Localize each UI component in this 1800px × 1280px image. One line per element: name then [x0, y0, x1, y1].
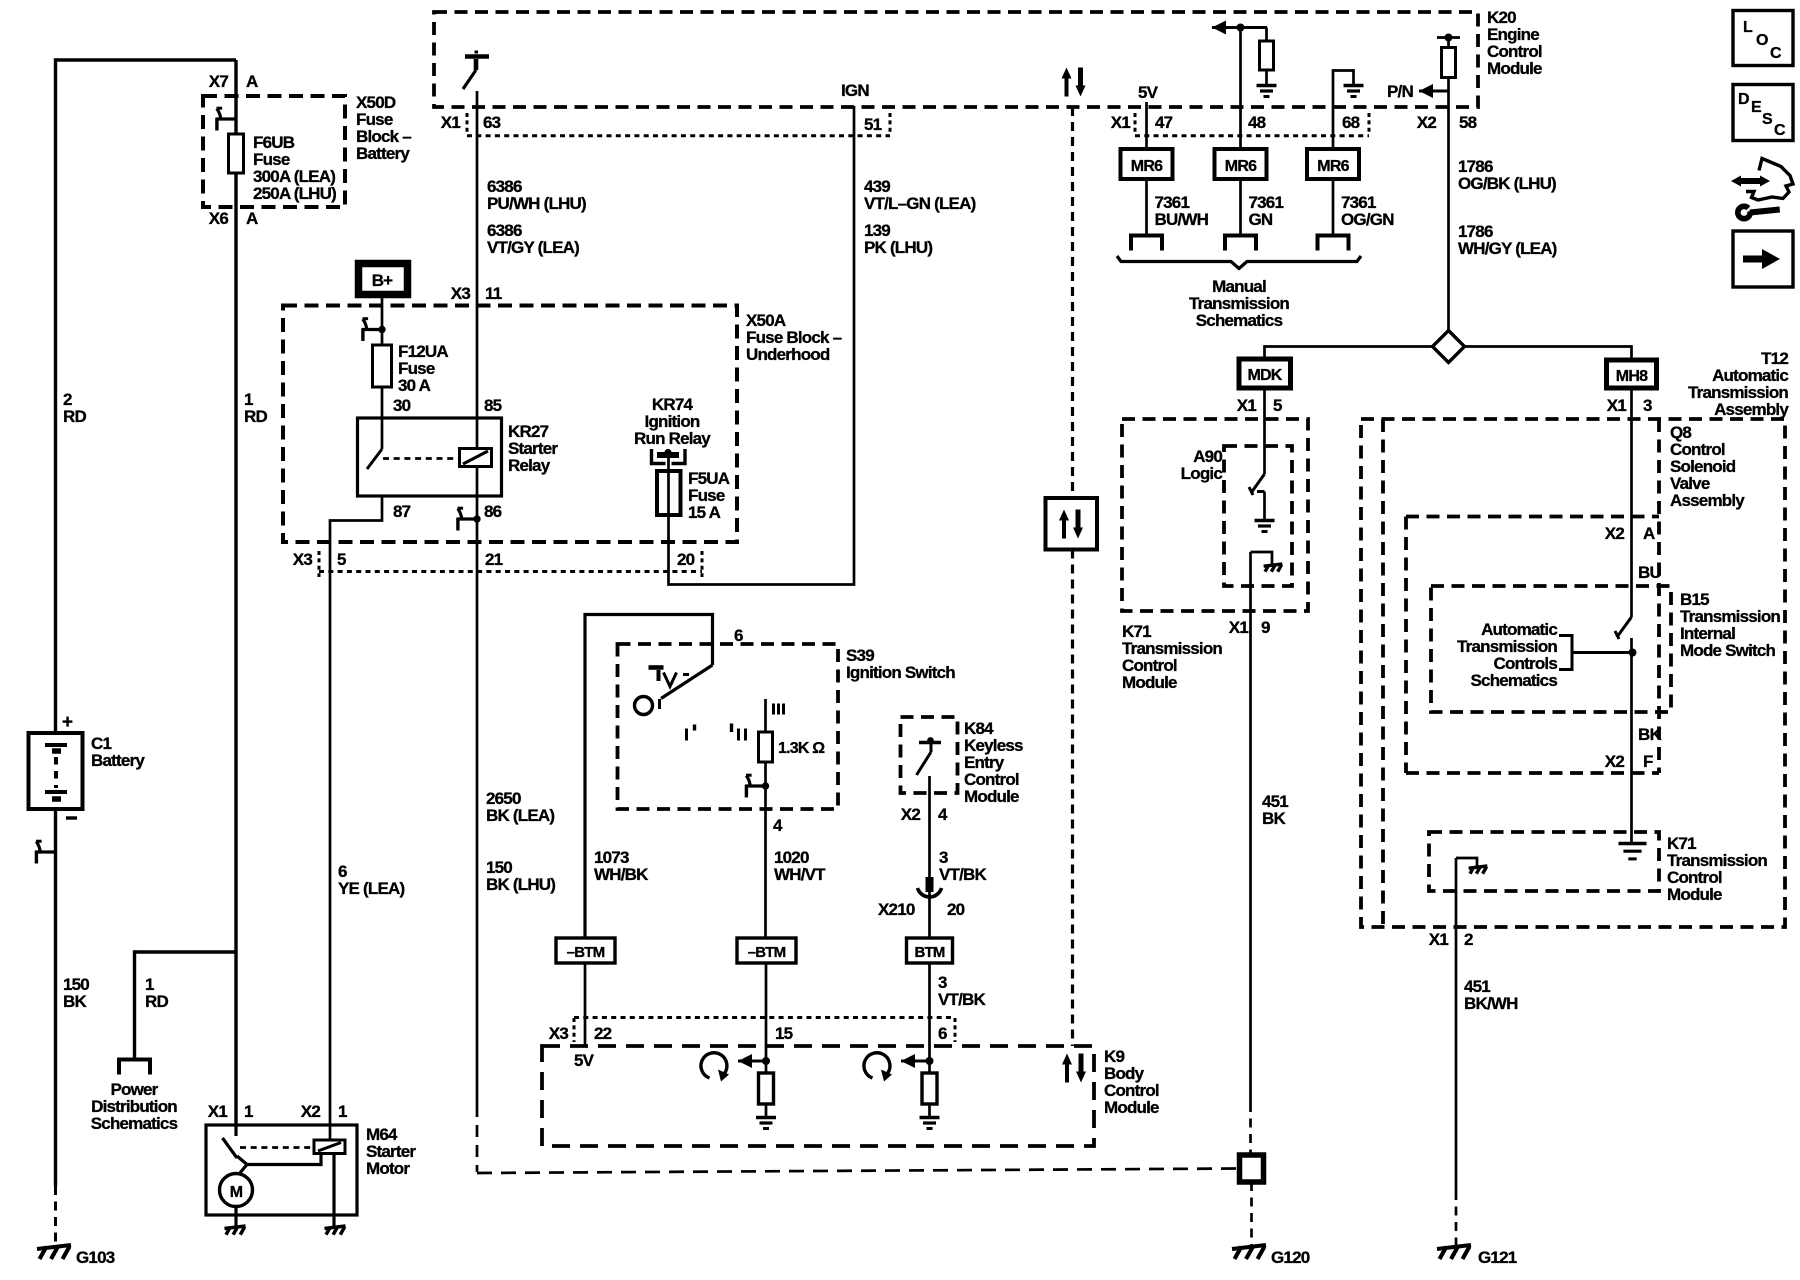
wire 1786 OG/BK [1447, 107, 1450, 331]
wire K84 output [928, 776, 931, 938]
K84 switch lever [917, 752, 932, 775]
connector X210 [926, 877, 934, 892]
icon DESC box [1733, 85, 1793, 141]
svg-text:OG/GN: OG/GN [1341, 210, 1394, 229]
svg-text:X1: X1 [1237, 396, 1257, 415]
svg-text:Assembly: Assembly [1714, 400, 1789, 419]
chassis ground under motor [224, 1226, 245, 1228]
svg-text:BK (LEA): BK (LEA) [486, 806, 554, 825]
svg-text:BK: BK [1638, 725, 1662, 744]
K71 chassis ground tap [1456, 858, 1477, 866]
svg-text:20: 20 [947, 900, 965, 919]
icon vehicle with arrow and wrench [1746, 159, 1793, 201]
keyless entry control module K84 box [901, 717, 958, 793]
BCM X3 dotted ticks [573, 1018, 576, 1042]
wire F12UA to relay pin 30 [381, 387, 384, 418]
svg-text:BU: BU [1638, 563, 1661, 582]
svg-text:MR6: MR6 [1317, 158, 1349, 175]
fuse block X50D box [203, 96, 345, 207]
bracket automatic transmission controls [1559, 636, 1572, 670]
svg-text:Module: Module [1104, 1098, 1159, 1117]
svg-text:G103: G103 [76, 1248, 115, 1267]
icon LOC box [1733, 11, 1793, 66]
wire 5V to MR6 [1145, 102, 1148, 149]
svg-text:30 A: 30 A [398, 376, 431, 395]
svg-text:Module: Module [1487, 59, 1542, 78]
svg-text:X2: X2 [1417, 113, 1437, 132]
wire relay coil to pin 86 [476, 467, 479, 497]
svg-text:X2: X2 [301, 1102, 321, 1121]
svg-text:RD: RD [244, 407, 267, 426]
svg-text:IGN: IGN [841, 81, 869, 100]
splice on battery ground wire [35, 850, 56, 853]
ECM internal ground (48) [1257, 84, 1277, 87]
svg-text:PU/WH (LHU): PU/WH (LHU) [487, 194, 586, 213]
svg-text:30: 30 [393, 396, 411, 415]
ECM run-crank output arrow [1212, 26, 1224, 29]
fuse block X50A box [283, 306, 737, 543]
starter motor M [220, 1174, 253, 1207]
svg-text:68: 68 [1342, 113, 1360, 132]
wire 451 BK/WH [1455, 858, 1458, 1191]
svg-text:BTM: BTM [914, 944, 944, 961]
svg-text:1.3K Ω: 1.3K Ω [778, 740, 825, 757]
svg-text:D: D [1738, 91, 1749, 108]
svg-text:BK: BK [1262, 809, 1286, 828]
svg-text:Logic: Logic [1181, 464, 1223, 483]
wire through fuse F5UA [667, 471, 670, 515]
splice box G120 [1240, 1155, 1264, 1182]
splice below S39 resistor [745, 784, 766, 787]
svg-text:X2: X2 [1605, 524, 1625, 543]
BCM loop arrow (6) [864, 1053, 890, 1078]
S39 detent contact [649, 665, 664, 670]
transmission internal mode switch B15 box [1431, 586, 1671, 712]
svg-text:9: 9 [1261, 618, 1270, 637]
off-page connector under MR6 #3 [1318, 236, 1349, 251]
B15 ground [1619, 842, 1647, 845]
fuse F6UB [229, 134, 244, 173]
svg-text:RD: RD [63, 407, 86, 426]
serial data dashed line upper [1071, 107, 1074, 498]
svg-text:YE (LEA): YE (LEA) [338, 879, 404, 898]
ground G103 [37, 1245, 71, 1249]
BCM serial data arrows [1065, 1061, 1069, 1083]
svg-text:WH/GY (LEA): WH/GY (LEA) [1458, 239, 1557, 258]
transmission control module K71 box [1122, 419, 1308, 611]
svg-text:87: 87 [393, 502, 411, 521]
wire 451 BK [1249, 552, 1252, 1103]
svg-text:BK/WH: BK/WH [1464, 994, 1518, 1013]
wire B+ to fuse F12UA [381, 295, 384, 345]
svg-text:X1: X1 [1229, 618, 1249, 637]
svg-text:6: 6 [938, 1024, 947, 1043]
svg-text:VT/GY (LEA): VT/GY (LEA) [487, 238, 579, 257]
svg-text:Battery: Battery [356, 144, 410, 163]
starter solenoid contact box [314, 1140, 345, 1154]
svg-text:85: 85 [484, 396, 502, 415]
svg-text:Schematics: Schematics [91, 1114, 178, 1133]
icon forward arrow box [1733, 231, 1793, 287]
wire pin 86 down (2650 BK) [476, 496, 479, 1105]
B+ power node [359, 264, 408, 295]
svg-text:3: 3 [1643, 396, 1652, 415]
wire 7361 OG/GN [1332, 179, 1335, 234]
BCM internal ground (6) [920, 1116, 940, 1119]
battery C1 minus terminal [66, 816, 77, 819]
svg-text:X1: X1 [208, 1102, 228, 1121]
svg-text:5: 5 [1273, 396, 1282, 415]
svg-text:Mode Switch: Mode Switch [1680, 641, 1776, 660]
svg-text:A: A [1643, 524, 1655, 543]
BCM arrow pin 15 [738, 1060, 750, 1063]
in-line connector MR6 #3 [1307, 149, 1359, 179]
svg-text:Motor: Motor [366, 1159, 410, 1178]
BCM X3 dotted line [574, 1016, 955, 1019]
relay KR27 switch lever [381, 418, 384, 449]
wire BTM to BCM pin 6 [928, 963, 931, 1061]
splice diamond junction [1433, 331, 1465, 363]
svg-text:X1: X1 [1429, 930, 1449, 949]
wire 451 BK dashed to G120 [1249, 1103, 1252, 1155]
ECM X1 connector dotted line [467, 134, 890, 137]
battery C1 [29, 733, 83, 809]
svg-text:E: E [1751, 99, 1762, 116]
serial data dashed line lower [1071, 550, 1074, 1047]
svg-text:P/N: P/N [1387, 82, 1413, 101]
svg-text:Schematics: Schematics [1471, 671, 1558, 690]
in-line connector -BTM (22) [556, 938, 615, 963]
S39 position mark III [772, 704, 775, 715]
svg-text:C: C [1770, 45, 1782, 62]
S39 position mark II [730, 724, 733, 733]
starter relay KR27 box [358, 418, 502, 496]
svg-text:X3: X3 [451, 284, 471, 303]
BCM loop arrow (15) [701, 1053, 727, 1078]
svg-text:21: 21 [485, 550, 503, 569]
splice above fuse F12UA [362, 328, 383, 331]
fuse F5UA [657, 471, 681, 515]
svg-text:15 A: 15 A [688, 503, 721, 522]
wire F5UA to ECM IGN pin 51 [669, 106, 855, 585]
svg-text:VT/BK: VT/BK [939, 865, 988, 884]
svg-text:X1: X1 [441, 113, 461, 132]
in-line connector BTM (6) [907, 938, 953, 963]
svg-text:X3: X3 [293, 550, 313, 569]
X2 connector box bottom border [1406, 771, 1659, 775]
serial data gateway box [1046, 498, 1098, 550]
ground G120 [1232, 1245, 1266, 1249]
wire 150 BK dashed to G103 [54, 1186, 57, 1246]
svg-text:4: 4 [938, 805, 948, 824]
svg-text:MR6: MR6 [1131, 158, 1163, 175]
relay KR27 coil box [460, 449, 492, 467]
svg-text:S: S [1762, 111, 1773, 128]
svg-text:B+: B+ [372, 271, 393, 290]
A90 chassis ground tap [1251, 552, 1273, 564]
transmission control module K71 (right) box [1429, 832, 1659, 891]
splice below relay pin 86 [457, 517, 478, 520]
svg-text:X210: X210 [878, 900, 915, 919]
svg-text:Module: Module [1122, 673, 1177, 692]
svg-text:X3: X3 [549, 1024, 569, 1043]
wire lever to motor [237, 1154, 321, 1165]
svg-text:VT/L–GN (LEA): VT/L–GN (LEA) [864, 194, 976, 213]
wire diamond to MH8 [1465, 347, 1632, 361]
starter motor M64 box [206, 1125, 357, 1215]
svg-text:58: 58 [1459, 113, 1477, 132]
wire 1 RD branch to power distribution [135, 950, 237, 953]
wire MDK to A90 switch [1263, 388, 1266, 474]
Q8 bottom border [1406, 515, 1659, 519]
wire dashed below G120 box [1250, 1182, 1253, 1246]
svg-text:Battery: Battery [91, 751, 145, 770]
BCM internal ground (15) [756, 1116, 776, 1119]
svg-text:MR6: MR6 [1225, 158, 1257, 175]
ECM internal resistor (58) [1437, 36, 1460, 39]
svg-text:A: A [246, 72, 258, 91]
svg-text:48: 48 [1248, 113, 1266, 132]
svg-text:X6: X6 [209, 209, 229, 228]
svg-text:X2: X2 [901, 805, 921, 824]
svg-text:X1: X1 [1607, 396, 1627, 415]
in-line connector -BTM (15) [737, 938, 796, 963]
wire diamond to MDK [1265, 347, 1433, 360]
ECM X1 right dotted line [1135, 134, 1369, 137]
svg-text:1: 1 [338, 1102, 347, 1121]
svg-text:F: F [1643, 752, 1653, 771]
wire KR74 to fuse F5UA [667, 455, 670, 471]
svg-text:BK (LHU): BK (LHU) [486, 875, 555, 894]
ignition switch S39 box [618, 644, 839, 809]
relay KR74 contact [652, 449, 666, 464]
in-line connector MR6 #2 [1215, 149, 1267, 179]
brace manual transmission schematics [1117, 256, 1361, 269]
off-page connector under MR6 #2 [1225, 236, 1256, 251]
wire pin 87 to X3-5 [330, 496, 382, 1140]
wire solenoid to ground [332, 1154, 335, 1227]
wire relay 85 to coil [476, 418, 479, 449]
svg-text:Underhood: Underhood [746, 345, 830, 364]
svg-text:Run Relay: Run Relay [634, 429, 711, 448]
engine control module K20 box [434, 12, 1478, 107]
starter relay actuation dashed line [240, 1146, 314, 1149]
ground G121 [1437, 1245, 1471, 1249]
svg-text:G121: G121 [1478, 1248, 1517, 1267]
svg-text:Schematics: Schematics [1196, 311, 1283, 330]
relay KR27 actuation dashed line [383, 457, 458, 460]
logic block A90 box [1224, 446, 1292, 586]
A90 switch lever [1251, 474, 1265, 493]
svg-text:MDK: MDK [1247, 367, 1282, 384]
wire 7361 BU/WH [1145, 179, 1148, 234]
svg-text:86: 86 [484, 502, 502, 521]
wire 150 BK battery ground [54, 809, 57, 1186]
svg-text:22: 22 [594, 1024, 612, 1043]
svg-text:5: 5 [337, 550, 346, 569]
svg-text:BU/WH: BU/WH [1155, 210, 1209, 229]
svg-text:+: + [62, 712, 73, 733]
ECM internal ground (68) [1333, 71, 1354, 150]
svg-text:WH/BK: WH/BK [594, 865, 649, 884]
svg-text:Module: Module [964, 787, 1019, 806]
wire 451 BK/WH dashed to G121 [1455, 1191, 1458, 1246]
off-page connector to power distribution schematics [119, 1060, 150, 1075]
svg-text:4: 4 [773, 816, 783, 835]
X2 connector box left border [1404, 517, 1408, 774]
svg-text:63: 63 [483, 113, 501, 132]
svg-text:PK (LHU): PK (LHU) [864, 238, 932, 257]
splice above fuse F6UB [216, 117, 237, 120]
BCM arrow pin 6 [901, 1060, 913, 1063]
wire motor to ground [234, 1207, 237, 1227]
svg-text:11: 11 [485, 284, 502, 303]
svg-text:2: 2 [1464, 930, 1473, 949]
automatic transmission assembly T12 box [1361, 419, 1785, 927]
B15 switch output junction [1630, 638, 1633, 843]
BCM pulldown resistor (6) [928, 1061, 931, 1073]
svg-text:L: L [1743, 19, 1753, 36]
svg-text:250A (LHU): 250A (LHU) [253, 184, 336, 203]
svg-text:Assembly: Assembly [1670, 491, 1745, 510]
svg-text:5V: 5V [574, 1051, 595, 1070]
svg-text:51: 51 [864, 115, 882, 134]
svg-text:WH/VT: WH/VT [774, 865, 826, 884]
svg-text:M: M [230, 1184, 243, 1201]
wire -BTM to BCM pin 15 [765, 963, 768, 1061]
BCM pulldown resistor (15) [765, 1061, 768, 1073]
off-page connector under MR6 #1 [1131, 236, 1162, 251]
wire MH8 to mode switch [1630, 388, 1633, 617]
Q8 assembly inner border [1381, 419, 1385, 927]
svg-text:C: C [1774, 122, 1786, 139]
svg-text:BK: BK [63, 992, 87, 1011]
starter solenoid switch lever [234, 1125, 237, 1136]
wire 2 RD battery feed horizontal [56, 58, 237, 61]
ECM ignition switch contact [465, 54, 489, 59]
svg-text:20: 20 [677, 550, 695, 569]
svg-text:47: 47 [1155, 113, 1173, 132]
in-line connector MDK [1239, 359, 1291, 388]
wire 2 RD battery feed vertical [54, 58, 57, 733]
wire X7 to fuse F6UB [234, 60, 237, 134]
fuse F12UA [373, 345, 392, 387]
in-line connector MR6 #1 [1121, 149, 1173, 179]
body control module K9 box [542, 1046, 1094, 1146]
S39 switch pivot [635, 697, 653, 715]
ECM internal resistor (48) [1265, 28, 1268, 42]
fuse block X3 dotted line [319, 570, 702, 573]
svg-text:X1: X1 [1111, 113, 1131, 132]
svg-text:MH8: MH8 [1616, 368, 1648, 385]
wire -BTM to BCM pin 22 [584, 963, 587, 1046]
svg-text:A: A [246, 209, 258, 228]
serial data up-down arrows (ECM) [1065, 75, 1069, 97]
svg-text:5V: 5V [1138, 83, 1159, 102]
A90 switch ground contact [1257, 490, 1265, 493]
svg-text:15: 15 [775, 1024, 793, 1043]
svg-text:VT/BK: VT/BK [938, 990, 987, 1009]
chassis ground under solenoid [324, 1226, 345, 1228]
svg-text:Module: Module [1667, 885, 1722, 904]
svg-text:GN: GN [1249, 210, 1273, 229]
svg-text:Relay: Relay [508, 456, 551, 475]
wire ECM to relay pin 85 [476, 91, 479, 418]
svg-text:O: O [1756, 32, 1768, 49]
S39 resistor 1.3K [764, 699, 767, 732]
wire ignition feed to S39 [585, 615, 713, 939]
svg-text:–BTM: –BTM [748, 944, 786, 961]
ECM X1 right dotted ticks [1134, 113, 1137, 135]
svg-text:RD: RD [145, 992, 168, 1011]
svg-text:X2: X2 [1605, 752, 1625, 771]
svg-text:–BTM: –BTM [567, 944, 605, 961]
svg-text:OG/BK (LHU): OG/BK (LHU) [1458, 174, 1556, 193]
S39 position mark I [685, 729, 688, 741]
ECM P/N arrow [1419, 90, 1431, 93]
B15 switch lever [1617, 617, 1632, 637]
K84 switch contact [919, 741, 941, 745]
in-line connector MH8 [1607, 360, 1657, 388]
svg-text:Ignition Switch: Ignition Switch [846, 663, 955, 682]
ECM X1 connector dotted ticks [466, 113, 469, 135]
Q8 right border [1657, 419, 1661, 773]
wire 1 RD fuse to starter [234, 173, 237, 1125]
svg-text:X7: X7 [209, 72, 229, 91]
wire ECM pin 48 [1239, 28, 1242, 150]
fuse block X3 dotted ticks [318, 551, 321, 577]
svg-text:1: 1 [244, 1102, 253, 1121]
svg-text:G120: G120 [1271, 1248, 1310, 1267]
S39 switch lever [661, 665, 713, 699]
wire 7361 GN [1239, 179, 1242, 234]
dashed wire 2650 BK to G120 [476, 1105, 479, 1172]
